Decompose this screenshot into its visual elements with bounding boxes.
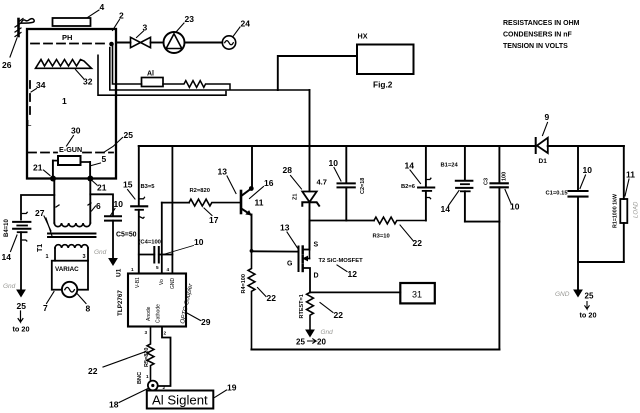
capacitor C2=18 — [329, 146, 367, 221]
svg-text:D: D — [314, 273, 319, 280]
svg-text:25: 25 — [585, 292, 594, 301]
svg-text:R1=1000 1kW: R1=1000 1kW — [613, 194, 619, 228]
svg-text:to 20: to 20 — [13, 325, 30, 334]
wire valve to pump — [151, 42, 164, 44]
wire HX drop — [278, 56, 357, 90]
svg-text:Anode: Anode — [146, 306, 152, 321]
box 4 (shutter) — [53, 2, 105, 26]
svg-text:22: 22 — [334, 310, 344, 320]
valve 3 — [131, 23, 151, 48]
wire base drive — [162, 202, 189, 204]
wire C3 to bottom rail — [498, 187, 500, 349]
svg-text:30: 30 — [71, 126, 81, 136]
svg-text:Al: Al — [147, 71, 154, 78]
svg-text:2: 2 — [119, 11, 124, 21]
svg-text:16: 16 — [264, 178, 274, 188]
node PH (quartz balance dashed line) — [31, 33, 114, 46]
svg-text:Al Siglent: Al Siglent — [152, 393, 208, 408]
svg-text:Gnd: Gnd — [94, 249, 107, 256]
resistor R5=820 — [88, 327, 154, 381]
svg-text:4: 4 — [167, 267, 170, 272]
svg-text:21: 21 — [33, 163, 43, 173]
ac source 24 — [222, 19, 250, 50]
svg-text:BNC: BNC — [137, 372, 143, 384]
zener Z1 4.7 — [283, 146, 327, 221]
resistor RTEST=1 — [299, 292, 343, 330]
resistor R2=820 — [189, 188, 241, 225]
vacuum chamber 2 — [27, 11, 124, 179]
svg-text:Gnd: Gnd — [321, 329, 334, 336]
svg-text:PH: PH — [62, 33, 72, 42]
evaporation source Al — [142, 71, 164, 87]
svg-text:10: 10 — [114, 199, 124, 209]
wire bottom rail — [252, 348, 500, 350]
wire drain to scope box — [310, 291, 400, 293]
load resistor R1=1000 1kW — [578, 146, 640, 262]
svg-text:V-B1: V-B1 — [135, 277, 141, 288]
ground (C5) — [94, 221, 117, 265]
svg-text:25: 25 — [296, 338, 305, 347]
svg-text:5: 5 — [156, 265, 159, 270]
transistor Q11 — [218, 146, 274, 251]
svg-text:4: 4 — [100, 2, 105, 12]
connector BNC 18 — [109, 372, 166, 410]
svg-text:29: 29 — [201, 317, 211, 327]
svg-text:LOAD: LOAD — [634, 201, 640, 218]
svg-text:TENSION IN VOLTS: TENSION IN VOLTS — [503, 43, 568, 50]
svg-text:G: G — [287, 261, 293, 268]
wire Al feed middle — [110, 48, 310, 91]
wire chamber to valve — [116, 42, 131, 44]
svg-text:5: 5 — [102, 154, 107, 164]
svg-text:B1=24: B1=24 — [441, 163, 459, 169]
heat exchanger HX — [357, 32, 414, 90]
svg-text:R5=820: R5=820 — [144, 348, 150, 367]
ground (RTEST) — [296, 329, 333, 347]
battery B4 — [2, 212, 31, 262]
wire gate drive — [252, 250, 299, 252]
svg-text:C3: C3 — [484, 178, 490, 185]
svg-text:Fig.2: Fig.2 — [373, 80, 393, 90]
svg-text:R3=10: R3=10 — [373, 234, 390, 240]
battery B2=6 — [401, 146, 434, 221]
svg-text:1: 1 — [131, 267, 134, 272]
svg-text:100: 100 — [502, 172, 508, 181]
svg-text:14: 14 — [2, 252, 12, 262]
resistor (Al wire) — [163, 81, 230, 90]
capacitor C5=50 — [105, 199, 137, 239]
svg-text:T1: T1 — [37, 244, 44, 252]
ac source 8 — [62, 282, 91, 314]
svg-text:B3=5: B3=5 — [141, 184, 156, 190]
node emitter junction — [250, 249, 254, 253]
svg-text:TLP2767: TLP2767 — [117, 290, 124, 316]
svg-text:1: 1 — [62, 96, 67, 106]
svg-text:HX: HX — [358, 32, 368, 41]
svg-text:U1: U1 — [116, 268, 123, 277]
svg-text:12: 12 — [348, 269, 358, 279]
wire opto pin2 to BNC — [158, 327, 171, 387]
svg-text:B2=6: B2=6 — [401, 184, 416, 190]
pump 23 — [164, 14, 195, 53]
svg-text:28: 28 — [283, 165, 293, 175]
svg-text:10: 10 — [510, 202, 520, 212]
variac 7 — [43, 254, 88, 313]
svg-text:L: L — [27, 119, 32, 128]
svg-text:25: 25 — [124, 130, 134, 140]
svg-text:7: 7 — [43, 303, 48, 313]
mosfet T2 SiC-MOSFET — [280, 221, 363, 293]
resistor R4=100 — [241, 251, 276, 350]
wire to battery B4 — [21, 195, 54, 220]
capacitor C1=0.15 — [546, 146, 593, 262]
svg-text:C5=50: C5=50 — [116, 232, 137, 239]
filament 32 — [36, 60, 93, 87]
svg-text:9: 9 — [545, 112, 550, 122]
svg-text:to 20: to 20 — [580, 311, 597, 320]
svg-text:32: 32 — [83, 77, 93, 87]
node 34 (dashed probe) — [27, 80, 46, 128]
svg-text:10: 10 — [329, 158, 339, 168]
wire HX branch to rail — [309, 90, 311, 146]
svg-text:13: 13 — [280, 223, 290, 233]
legend text — [503, 20, 580, 50]
svg-text:26: 26 — [2, 60, 12, 70]
svg-text:13: 13 — [218, 167, 228, 177]
svg-text:R4=100: R4=100 — [241, 274, 247, 293]
svg-text:22: 22 — [88, 366, 98, 376]
svg-text:22: 22 — [413, 238, 423, 248]
svg-text:RTEST=1: RTEST=1 — [299, 294, 305, 318]
svg-text:27: 27 — [35, 208, 45, 218]
svg-text:Vo: Vo — [159, 279, 165, 285]
ground (load) — [555, 262, 597, 320]
e-gun block 5 — [53, 154, 107, 179]
svg-text:GND: GND — [170, 278, 176, 290]
svg-text:11: 11 — [255, 198, 264, 208]
svg-text:4.7: 4.7 — [317, 178, 327, 187]
svg-text:3: 3 — [83, 254, 86, 260]
svg-text:22: 22 — [267, 293, 277, 303]
generator box Al Siglent 19 — [147, 383, 237, 409]
svg-text:T2 SiC-MOSFET: T2 SiC-MOSFET — [319, 258, 364, 264]
svg-text:OPTO Coupler: OPTO Coupler — [179, 282, 195, 324]
opto-coupler U1 TLP2767 — [116, 146, 211, 336]
svg-text:GND: GND — [555, 291, 570, 298]
ground (B4) — [3, 232, 30, 333]
svg-text:21: 21 — [97, 183, 107, 193]
battery B1=24 — [441, 146, 500, 222]
svg-text:11: 11 — [626, 170, 635, 180]
svg-text:19: 19 — [227, 383, 237, 393]
svg-text:24: 24 — [241, 19, 251, 29]
gauge 26 (scribble) — [2, 19, 34, 71]
svg-text:E-GUN: E-GUN — [59, 145, 82, 154]
svg-text:(C4=100): (C4=100) — [139, 240, 163, 246]
svg-text:6: 6 — [96, 201, 101, 211]
node 1 (chamber label) — [62, 96, 67, 106]
svg-text:R2=820: R2=820 — [190, 188, 210, 194]
svg-text:CONDENSERS IN nF: CONDENSERS IN nF — [503, 32, 573, 39]
resistor R3=10 — [310, 217, 426, 248]
transformer T1 — [35, 179, 101, 261]
svg-text:1: 1 — [146, 374, 149, 379]
svg-text:20: 20 — [317, 338, 326, 347]
svg-text:18: 18 — [109, 400, 119, 410]
svg-text:C1=0.15: C1=0.15 — [546, 191, 569, 197]
svg-text:S: S — [314, 242, 319, 249]
e-gun 30 dashed grid 25 — [28, 126, 133, 155]
wire to capacitor C5 — [90, 194, 113, 216]
svg-text:17: 17 — [209, 215, 219, 225]
wire Al feed top — [111, 44, 141, 84]
svg-text:VARIAC: VARIAC — [55, 266, 79, 273]
oscilloscope box 31 — [400, 283, 435, 303]
svg-text:25: 25 — [17, 301, 27, 311]
battery B3=5 — [123, 146, 155, 274]
svg-text:C2=18: C2=18 — [360, 178, 366, 194]
svg-text:8: 8 — [86, 304, 91, 314]
svg-text:D1: D1 — [539, 158, 548, 165]
svg-text:2: 2 — [164, 331, 167, 336]
svg-text:1: 1 — [46, 254, 49, 260]
capacitor C4=100 — [139, 237, 204, 263]
svg-text:3: 3 — [145, 330, 148, 335]
svg-text:B4=10: B4=10 — [4, 218, 10, 237]
wire pump to source 24 — [185, 42, 223, 44]
node 21 (right junction) — [87, 176, 106, 193]
svg-text:2: 2 — [163, 385, 166, 390]
svg-text:15: 15 — [123, 180, 133, 190]
svg-text:34: 34 — [36, 80, 46, 90]
svg-text:31: 31 — [412, 290, 422, 300]
capacitor C3 100 — [484, 146, 520, 212]
svg-text:10: 10 — [583, 165, 593, 175]
svg-text:Gnd: Gnd — [3, 283, 16, 290]
svg-text:23: 23 — [185, 14, 195, 24]
svg-text:RESISTANCES IN OHM: RESISTANCES IN OHM — [503, 20, 580, 27]
svg-text:Z1: Z1 — [293, 194, 299, 200]
svg-text:Cathode: Cathode — [156, 304, 162, 323]
diode D1 — [536, 112, 550, 165]
svg-text:14: 14 — [405, 161, 415, 171]
node 21 (left junction) — [33, 163, 56, 182]
wire Al feed lower — [98, 55, 226, 95]
svg-text:10: 10 — [194, 237, 204, 247]
wire top rail — [139, 145, 624, 147]
